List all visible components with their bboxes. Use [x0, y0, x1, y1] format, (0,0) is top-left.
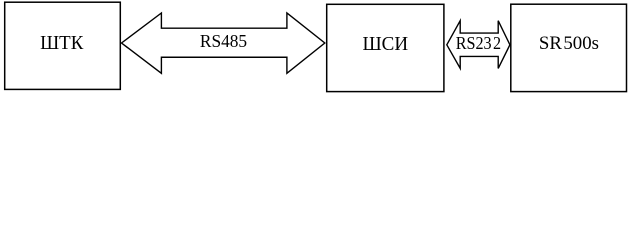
arrow RS485 [122, 13, 325, 73]
arrow RS232 [447, 21, 510, 69]
svg-text:SR 500s: SR 500s [539, 33, 599, 54]
svg-text:RS485: RS485 [200, 31, 247, 51]
block ШСИ [327, 4, 444, 91]
block SR500s [511, 4, 627, 91]
svg-text:ШТК: ШТК [40, 32, 84, 54]
svg-text:ШСИ: ШСИ [363, 33, 409, 55]
block ШТК [5, 2, 121, 89]
svg-text:RS23 2: RS23 2 [456, 33, 501, 53]
